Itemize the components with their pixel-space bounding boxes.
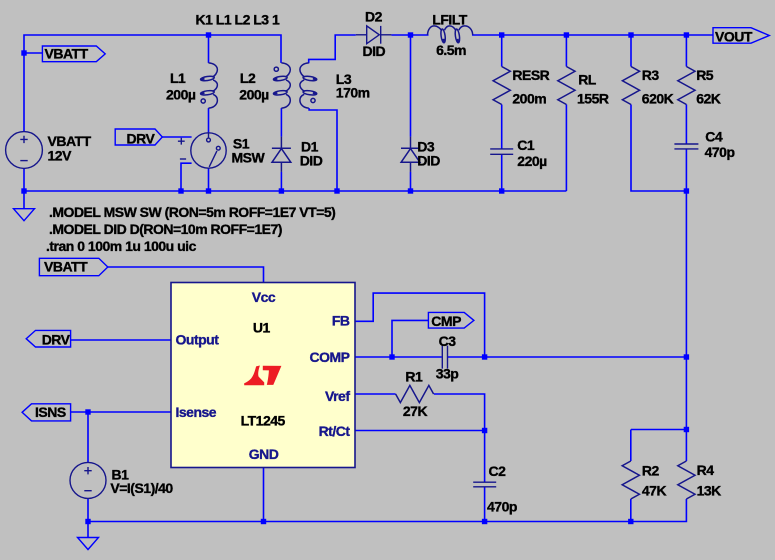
svg-text:COMP: COMP bbox=[310, 349, 350, 365]
svg-text:DRV: DRV bbox=[127, 131, 156, 147]
svg-text:K1 L1 L2 L3 1: K1 L1 L2 L3 1 bbox=[196, 12, 280, 28]
svg-text:620K: 620K bbox=[642, 91, 674, 107]
svg-text:200m: 200m bbox=[512, 91, 546, 107]
svg-text:R2: R2 bbox=[642, 463, 660, 479]
svg-text:D2: D2 bbox=[365, 9, 383, 25]
svg-text:6.5m: 6.5m bbox=[436, 42, 466, 58]
svg-text:R5: R5 bbox=[696, 67, 714, 83]
svg-text:L1: L1 bbox=[170, 70, 186, 86]
svg-text:DRV: DRV bbox=[42, 332, 71, 348]
svg-text:MSW: MSW bbox=[232, 150, 266, 166]
svg-text:12V: 12V bbox=[48, 148, 73, 164]
svg-text:470p: 470p bbox=[487, 499, 517, 515]
svg-text:L2: L2 bbox=[240, 70, 256, 86]
svg-text:C1: C1 bbox=[517, 137, 535, 153]
svg-text:200µ: 200µ bbox=[239, 87, 269, 103]
svg-text:C4: C4 bbox=[705, 129, 723, 145]
svg-text:13K: 13K bbox=[697, 483, 722, 499]
svg-text:27K: 27K bbox=[403, 403, 428, 419]
svg-text:RL: RL bbox=[578, 72, 597, 88]
svg-text:LFILT: LFILT bbox=[432, 12, 468, 28]
svg-text:R4: R4 bbox=[697, 462, 715, 478]
svg-text:C3: C3 bbox=[439, 333, 457, 349]
svg-text:Rt/Ct: Rt/Ct bbox=[319, 423, 351, 439]
svg-text:Vcc: Vcc bbox=[252, 289, 276, 305]
svg-text:GND: GND bbox=[249, 446, 279, 462]
svg-text:470p: 470p bbox=[705, 144, 735, 160]
svg-text:47K: 47K bbox=[642, 483, 667, 499]
svg-text:R3: R3 bbox=[642, 67, 660, 83]
svg-text:RESR: RESR bbox=[512, 67, 549, 83]
svg-text:33p: 33p bbox=[436, 366, 459, 382]
svg-text:VOUT: VOUT bbox=[715, 29, 753, 45]
svg-text:155R: 155R bbox=[577, 91, 609, 107]
svg-text:DID: DID bbox=[363, 43, 386, 59]
svg-text:DID: DID bbox=[300, 153, 323, 169]
svg-text:62K: 62K bbox=[696, 91, 721, 107]
svg-text:170m: 170m bbox=[336, 85, 370, 101]
svg-text:V=I(S1)/40: V=I(S1)/40 bbox=[110, 480, 173, 496]
svg-text:200µ: 200µ bbox=[166, 87, 196, 103]
svg-text:.MODEL DID D(RON=10m ROFF=1E7): .MODEL DID D(RON=10m ROFF=1E7) bbox=[49, 221, 282, 237]
svg-text:VBATT: VBATT bbox=[45, 46, 89, 62]
svg-text:ISNS: ISNS bbox=[35, 404, 66, 420]
svg-text:FB: FB bbox=[332, 313, 350, 329]
svg-text:U1: U1 bbox=[253, 320, 271, 336]
svg-text:.tran 0 100m 1u 100u uic: .tran 0 100m 1u 100u uic bbox=[46, 238, 197, 254]
svg-text:C2: C2 bbox=[489, 463, 507, 479]
svg-text:220µ: 220µ bbox=[517, 153, 547, 169]
svg-text:Vref: Vref bbox=[325, 388, 350, 404]
svg-text:DID: DID bbox=[417, 153, 440, 169]
svg-text:R1: R1 bbox=[405, 369, 423, 385]
svg-text:Output: Output bbox=[176, 332, 220, 348]
svg-text:.MODEL MSW SW (RON=5m ROFF=1E7: .MODEL MSW SW (RON=5m ROFF=1E7 VT=5) bbox=[49, 204, 335, 220]
svg-text:CMP: CMP bbox=[431, 313, 461, 329]
svg-text:Isense: Isense bbox=[176, 404, 217, 420]
svg-text:VBATT: VBATT bbox=[44, 259, 88, 275]
svg-text:LT1245: LT1245 bbox=[241, 413, 286, 429]
